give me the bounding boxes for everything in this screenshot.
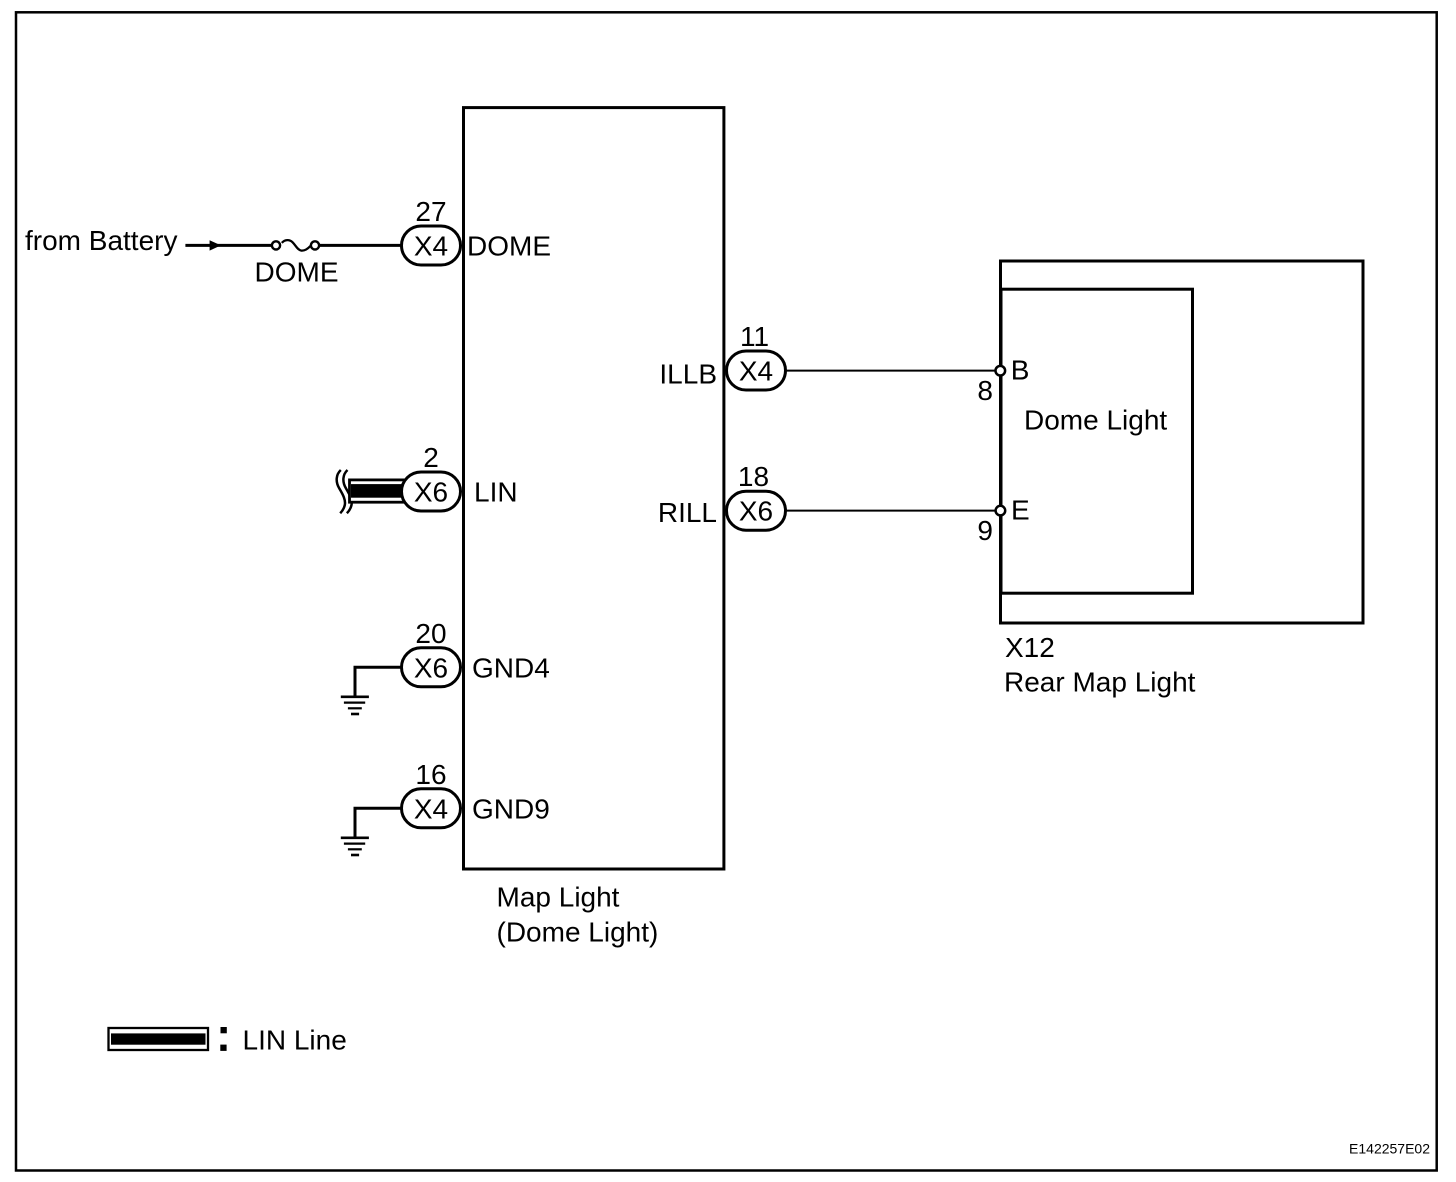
svg-text:DOME: DOME [255,257,339,288]
svg-text:DOME: DOME [467,231,551,262]
connector oval X6 GND4 pin 20 [402,648,461,687]
X12 Rear Map Light outer box [1001,261,1364,623]
svg-text:X4: X4 [414,231,448,262]
LIN shielded line break squiggles [337,470,345,513]
legend LIN line sample [109,1028,209,1050]
svg-text:RILL: RILL [658,497,717,528]
svg-text:2: 2 [423,442,439,473]
svg-text:GND4: GND4 [472,652,550,683]
svg-text:X4: X4 [739,356,773,387]
legend colon [221,1027,227,1033]
svg-text:18: 18 [738,461,769,492]
svg-text:LIN: LIN [474,477,518,508]
svg-text:X6: X6 [739,496,773,527]
arrowhead [210,240,221,250]
svg-text:(Dome Light): (Dome Light) [497,917,659,948]
connector oval X6 LIN pin 2 [402,472,461,511]
pin B terminal [996,366,1006,376]
svg-text:ILLB: ILLB [659,359,717,390]
Dome Light inner box [1001,289,1193,593]
svg-text:16: 16 [415,759,446,790]
svg-text:11: 11 [740,321,769,352]
ECU box Map Light (Dome Light) [464,108,724,869]
svg-text:E142257E02: E142257E02 [1349,1141,1430,1157]
ground symbol GND4 [341,695,369,698]
connector oval X6 RILL pin 18 [727,491,786,530]
ground symbol GND9 [341,836,369,839]
svg-text:X6: X6 [414,652,448,683]
svg-text:27: 27 [415,196,446,227]
svg-text:X6: X6 [414,477,448,508]
svg-text:8: 8 [977,375,993,406]
svg-text:9: 9 [977,515,993,546]
svg-text:from Battery: from Battery [25,225,177,256]
svg-text:20: 20 [415,618,446,649]
svg-text:B: B [1011,355,1030,386]
connector oval X4 ILLB pin 11 [727,351,786,390]
GND9 wire [355,808,403,837]
fuse DOME [272,241,280,249]
svg-text:Rear Map Light: Rear Map Light [1004,666,1196,697]
svg-text:X12: X12 [1005,632,1055,663]
svg-text:Dome Light: Dome Light [1024,405,1167,436]
svg-text:GND9: GND9 [472,793,550,824]
wire fuse to connector [319,244,403,247]
connector oval X4 DOME pin 27 [402,226,461,265]
svg-text:E: E [1011,495,1030,526]
svg-text:X4: X4 [414,793,448,824]
svg-text:LIN Line: LIN Line [243,1025,347,1056]
wire from battery [185,244,271,247]
wire ILLB to pin B [785,370,995,372]
LIN line (thick bus) [350,480,405,502]
GND4 wire [355,667,403,696]
connector oval X4 GND9 pin 16 [402,789,461,828]
pin E terminal [996,506,1006,516]
wire RILL to pin E [785,510,995,512]
svg-text:Map Light: Map Light [497,882,620,913]
